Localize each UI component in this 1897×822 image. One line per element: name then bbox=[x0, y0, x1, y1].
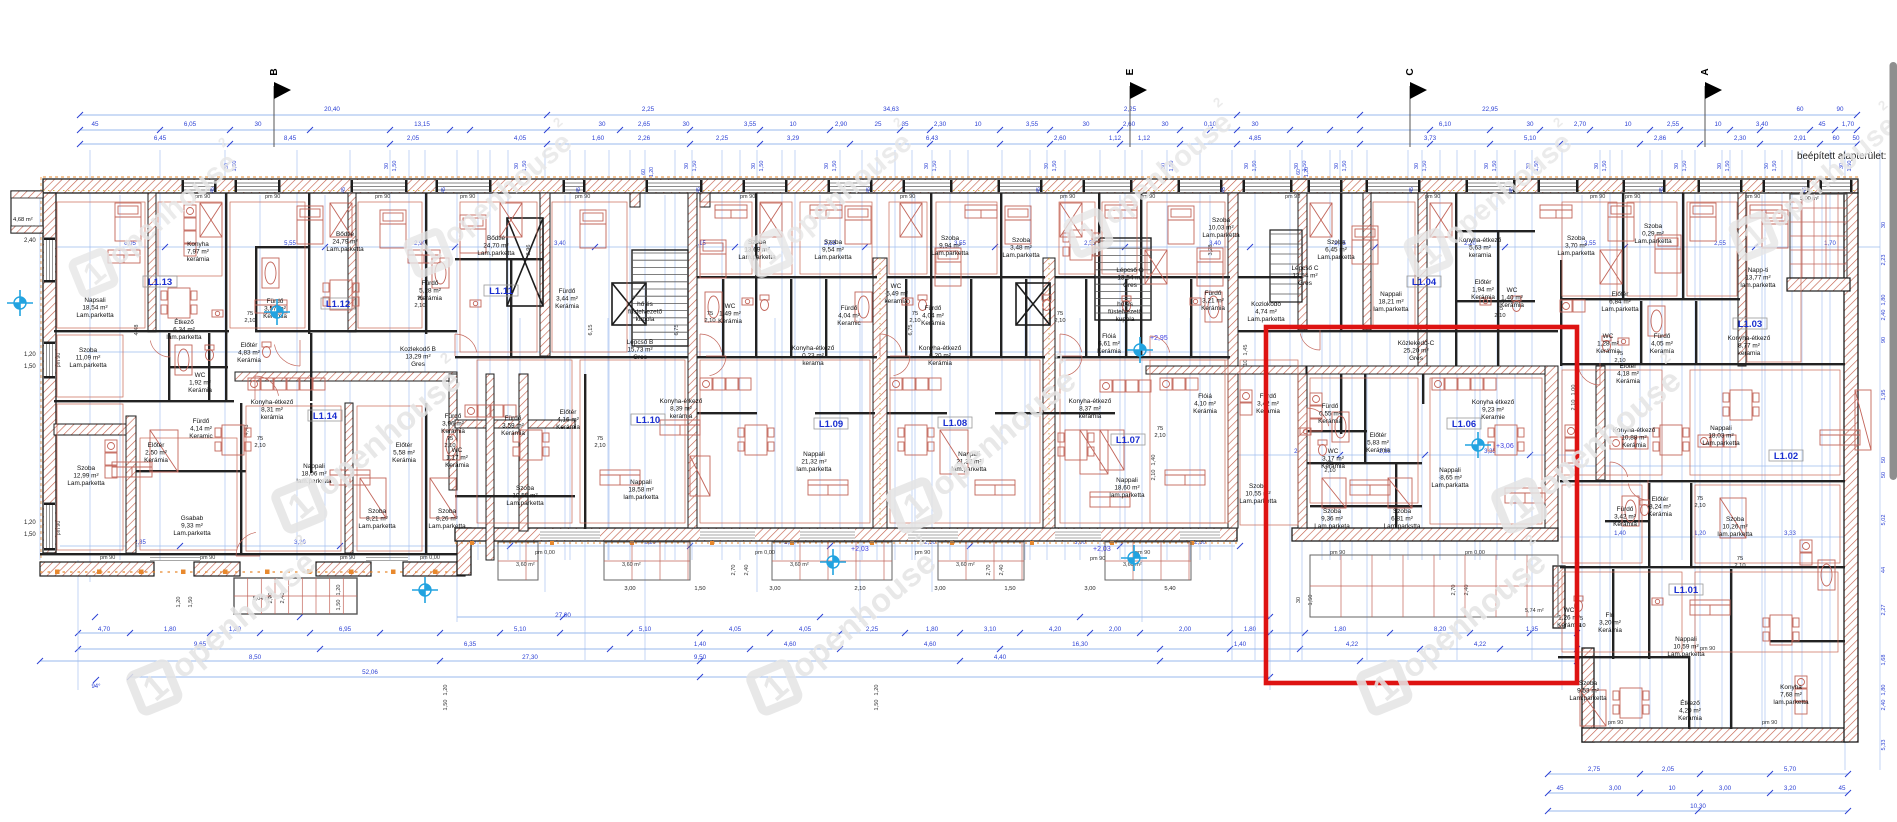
terraces bbox=[498, 542, 1558, 617]
svg-text:30: 30 bbox=[254, 121, 262, 128]
svg-text:5,40: 5,40 bbox=[1164, 586, 1175, 592]
svg-text:1,50: 1,50 bbox=[694, 586, 705, 592]
svg-text:6,10: 6,10 bbox=[1439, 121, 1452, 128]
section flags bbox=[269, 68, 1722, 147]
svg-text:45: 45 bbox=[1409, 187, 1415, 193]
svg-text:4,22: 4,22 bbox=[1474, 641, 1487, 648]
stairwell C bbox=[1270, 230, 1302, 302]
svg-text:30: 30 bbox=[1296, 597, 1302, 603]
smoke vent boxes bbox=[507, 218, 1050, 325]
svg-text:45: 45 bbox=[1556, 785, 1564, 792]
svg-text:2,10: 2,10 bbox=[1151, 470, 1157, 481]
svg-text:45: 45 bbox=[441, 187, 447, 193]
unit L1.01 bbox=[1669, 584, 1703, 595]
svg-text:3,00: 3,00 bbox=[1609, 785, 1622, 792]
svg-text:pm 90: pm 90 bbox=[1762, 720, 1777, 726]
svg-text:4,68 m²: 4,68 m² bbox=[13, 217, 33, 223]
svg-text:30: 30 bbox=[1484, 163, 1490, 169]
svg-text:3,60 m²: 3,60 m² bbox=[622, 562, 641, 568]
svg-text:3,00: 3,00 bbox=[934, 586, 945, 592]
svg-text:4,05: 4,05 bbox=[799, 626, 812, 633]
svg-text:4,60: 4,60 bbox=[924, 641, 937, 648]
svg-text:10: 10 bbox=[974, 121, 982, 128]
svg-text:2,05: 2,05 bbox=[1662, 766, 1675, 773]
svg-text:2,70: 2,70 bbox=[731, 565, 737, 576]
svg-text:2,10: 2,10 bbox=[1154, 433, 1165, 439]
svg-text:1,40: 1,40 bbox=[1234, 641, 1247, 648]
svg-text:L1.12: L1.12 bbox=[326, 299, 350, 310]
svg-text:1,50: 1,50 bbox=[392, 161, 398, 172]
furniture bbox=[105, 203, 1871, 726]
svg-text:1,20: 1,20 bbox=[649, 167, 655, 177]
svg-text:1,50: 1,50 bbox=[832, 161, 838, 172]
wall: right extension bottom bbox=[1582, 728, 1848, 742]
svg-text:5,02: 5,02 bbox=[1881, 515, 1887, 526]
svg-text:1,80: 1,80 bbox=[926, 626, 939, 633]
svg-text:30: 30 bbox=[598, 121, 606, 128]
svg-text:45: 45 bbox=[1659, 187, 1665, 193]
svg-text:L1.06: L1.06 bbox=[1452, 419, 1476, 430]
svg-text:1,60: 1,60 bbox=[592, 135, 605, 142]
svg-text:30: 30 bbox=[924, 163, 930, 169]
svg-text:L1.09: L1.09 bbox=[819, 419, 843, 430]
wall: bottom left bbox=[40, 553, 457, 555]
svg-text:2,40: 2,40 bbox=[24, 238, 36, 244]
wall: bottom middle bbox=[455, 528, 1237, 541]
svg-text:10,30: 10,30 bbox=[1690, 803, 1706, 810]
svg-text:3,40: 3,40 bbox=[1756, 121, 1769, 128]
interior walls: unit L1.06 bbox=[1298, 366, 1558, 528]
svg-text:1,50: 1,50 bbox=[1422, 161, 1428, 172]
svg-text:6,43: 6,43 bbox=[926, 135, 939, 142]
svg-text:3,00: 3,00 bbox=[1719, 785, 1732, 792]
svg-text:4,85: 4,85 bbox=[1249, 135, 1262, 142]
svg-text:1,50: 1,50 bbox=[759, 161, 765, 172]
svg-text:2,60: 2,60 bbox=[1054, 135, 1067, 142]
svg-text:60: 60 bbox=[1832, 135, 1840, 142]
svg-text:2,10: 2,10 bbox=[704, 318, 715, 324]
unit L1.11 bbox=[484, 285, 518, 296]
svg-text:5,10: 5,10 bbox=[514, 626, 527, 633]
svg-text:2,00: 2,00 bbox=[1109, 626, 1122, 633]
wall: left exterior bbox=[43, 193, 56, 553]
svg-text:pm 90: pm 90 bbox=[740, 194, 755, 200]
svg-text:30: 30 bbox=[684, 163, 690, 169]
svg-text:2,10: 2,10 bbox=[244, 318, 255, 324]
svg-text:1,70: 1,70 bbox=[1842, 121, 1855, 128]
interior walls: right extension bbox=[1558, 193, 1845, 729]
svg-text:2,27: 2,27 bbox=[1881, 605, 1887, 616]
svg-text:1,20: 1,20 bbox=[24, 352, 36, 358]
svg-text:5,10: 5,10 bbox=[1524, 135, 1537, 142]
svg-text:1,50: 1,50 bbox=[1052, 161, 1058, 172]
building outer walls bbox=[11, 167, 1858, 742]
svg-text:3,55: 3,55 bbox=[744, 121, 757, 128]
svg-text:45: 45 bbox=[1036, 187, 1042, 193]
svg-text:75: 75 bbox=[247, 311, 253, 317]
svg-text:45: 45 bbox=[341, 187, 347, 193]
interior walls: L1.04 / corridor C block bbox=[1238, 193, 1558, 366]
svg-text:75: 75 bbox=[597, 436, 603, 442]
svg-text:3,55: 3,55 bbox=[1026, 121, 1039, 128]
svg-text:30: 30 bbox=[824, 163, 830, 169]
svg-text:pm 90: pm 90 bbox=[265, 194, 280, 200]
interior walls: stair B + mid units bbox=[688, 193, 1238, 528]
svg-text:L1.13: L1.13 bbox=[148, 277, 172, 288]
svg-text:30: 30 bbox=[1881, 222, 1887, 228]
svg-text:2,65: 2,65 bbox=[638, 121, 651, 128]
svg-text:4,20: 4,20 bbox=[1049, 626, 1062, 633]
svg-text:1,68: 1,68 bbox=[1881, 655, 1887, 666]
svg-text:1,50: 1,50 bbox=[443, 700, 449, 711]
svg-text:3,40: 3,40 bbox=[554, 241, 566, 247]
svg-text:75: 75 bbox=[1737, 556, 1743, 562]
stairwell mid (Lepcso G) bbox=[1095, 238, 1306, 374]
svg-text:1,50: 1,50 bbox=[1772, 161, 1778, 172]
svg-text:1,80: 1,80 bbox=[1881, 295, 1887, 306]
svg-text:pm 90: pm 90 bbox=[200, 555, 215, 561]
svg-text:30: 30 bbox=[384, 163, 390, 169]
svg-text:pm 90: pm 90 bbox=[340, 555, 355, 561]
svg-text:75: 75 bbox=[1617, 351, 1623, 357]
svg-text:Konyha7,97 m²kerámia: Konyha7,97 m²kerámia bbox=[187, 241, 210, 263]
level marks bbox=[100, 194, 1777, 726]
unit L1.07 bbox=[1111, 434, 1145, 445]
svg-text:3,00: 3,00 bbox=[624, 586, 635, 592]
svg-text:pm 90: pm 90 bbox=[1060, 194, 1075, 200]
svg-text:25: 25 bbox=[874, 121, 882, 128]
wall: L1.06 bottom bbox=[1292, 528, 1558, 541]
svg-text:2,75: 2,75 bbox=[1588, 766, 1601, 773]
svg-text:2,10: 2,10 bbox=[594, 443, 605, 449]
svg-text:pm 90: pm 90 bbox=[1745, 194, 1760, 200]
svg-text:pm 0,00: pm 0,00 bbox=[1465, 550, 1485, 556]
svg-text:6,45: 6,45 bbox=[154, 135, 167, 142]
windows: top wall bbox=[184, 180, 214, 192]
svg-text:L1.07: L1.07 bbox=[1116, 435, 1140, 446]
unit L1.02 bbox=[1769, 450, 1803, 461]
svg-text:75: 75 bbox=[1327, 461, 1333, 467]
svg-text:1,20: 1,20 bbox=[336, 585, 342, 596]
svg-text:30: 30 bbox=[1526, 121, 1534, 128]
svg-text:1,40: 1,40 bbox=[1614, 531, 1626, 537]
svg-text:4,22: 4,22 bbox=[1346, 641, 1359, 648]
svg-text:L1.14: L1.14 bbox=[313, 411, 338, 422]
svg-text:8,50: 8,50 bbox=[249, 654, 262, 661]
svg-text:60: 60 bbox=[1296, 169, 1302, 175]
svg-text:pm 90: pm 90 bbox=[1330, 550, 1345, 556]
svg-text:2,10: 2,10 bbox=[1494, 313, 1505, 319]
svg-text:pm 90: pm 90 bbox=[1608, 720, 1623, 726]
svg-text:3,60 m²: 3,60 m² bbox=[516, 562, 535, 568]
svg-text:pm 90: pm 90 bbox=[900, 194, 915, 200]
svg-text:94°: 94° bbox=[91, 684, 101, 690]
wall: right exterior bbox=[1844, 193, 1858, 742]
svg-text:30: 30 bbox=[1294, 163, 1300, 169]
svg-text:30: 30 bbox=[1244, 163, 1250, 169]
svg-text:E: E bbox=[1125, 68, 1136, 75]
svg-text:pm 90: pm 90 bbox=[1590, 194, 1605, 200]
svg-text:pm 90: pm 90 bbox=[1700, 646, 1715, 652]
top-right balcony bbox=[1787, 194, 1850, 291]
svg-text:1,40: 1,40 bbox=[694, 641, 707, 648]
svg-text:30: 30 bbox=[751, 163, 757, 169]
svg-text:2,10: 2,10 bbox=[1694, 503, 1705, 509]
svg-text:2,91: 2,91 bbox=[1794, 135, 1807, 142]
svg-text:2,30: 2,30 bbox=[1734, 135, 1747, 142]
unit labels bbox=[143, 276, 1803, 596]
unit L1.09 bbox=[814, 418, 848, 429]
svg-text:1,50: 1,50 bbox=[1308, 595, 1314, 606]
svg-text:1,20: 1,20 bbox=[24, 520, 36, 526]
red highlight rectangle bbox=[1266, 327, 1577, 683]
svg-text:6,15: 6,15 bbox=[588, 325, 594, 336]
svg-text:3,00: 3,00 bbox=[769, 586, 780, 592]
survey benchmarks bbox=[7, 290, 1514, 603]
svg-text:30: 30 bbox=[1161, 121, 1169, 128]
svg-text:L1.11: L1.11 bbox=[489, 286, 513, 297]
svg-text:30: 30 bbox=[1334, 163, 1340, 169]
svg-text:2,25: 2,25 bbox=[716, 135, 729, 142]
svg-text:1,50: 1,50 bbox=[874, 700, 880, 711]
svg-text:2,40: 2,40 bbox=[1881, 700, 1887, 711]
svg-text:1,50: 1,50 bbox=[188, 597, 194, 608]
watermarks bbox=[61, 134, 250, 303]
svg-text:10: 10 bbox=[1714, 121, 1722, 128]
svg-text:45: 45 bbox=[91, 121, 99, 128]
unit L1.03 bbox=[1733, 318, 1767, 329]
svg-text:30: 30 bbox=[1674, 163, 1680, 169]
svg-text:34,63: 34,63 bbox=[883, 106, 899, 113]
svg-text:1,80: 1,80 bbox=[164, 626, 177, 633]
svg-text:3,60 m²: 3,60 m² bbox=[956, 562, 975, 568]
svg-text:75: 75 bbox=[447, 436, 453, 442]
svg-text:2,30: 2,30 bbox=[934, 121, 947, 128]
room labels bbox=[67, 217, 1809, 722]
svg-text:30: 30 bbox=[1082, 121, 1090, 128]
svg-text:2,70: 2,70 bbox=[1574, 121, 1587, 128]
svg-text:60: 60 bbox=[641, 169, 647, 175]
flag E bbox=[1129, 86, 1131, 147]
svg-text:3,20: 3,20 bbox=[1784, 785, 1797, 792]
svg-text:2,10: 2,10 bbox=[1324, 468, 1335, 474]
svg-text:75: 75 bbox=[1157, 426, 1163, 432]
svg-text:16,30: 16,30 bbox=[1072, 641, 1088, 648]
svg-text:3,00: 3,00 bbox=[1084, 586, 1095, 592]
svg-text:2,10: 2,10 bbox=[414, 303, 425, 309]
svg-text:30: 30 bbox=[1251, 121, 1259, 128]
svg-text:3,28: 3,28 bbox=[1208, 245, 1214, 256]
svg-text:1,50: 1,50 bbox=[1342, 161, 1348, 172]
svg-text:2,55: 2,55 bbox=[1714, 241, 1726, 247]
svg-text:1,12: 1,12 bbox=[1138, 135, 1151, 142]
svg-text:L1.10: L1.10 bbox=[636, 415, 660, 426]
svg-text:45: 45 bbox=[576, 187, 582, 193]
svg-text:pm 0,00: pm 0,00 bbox=[755, 550, 775, 556]
svg-text:2,10: 2,10 bbox=[444, 443, 455, 449]
svg-text:2,10: 2,10 bbox=[1054, 318, 1065, 324]
unit L1.06 bbox=[1447, 418, 1481, 429]
svg-text:2,26: 2,26 bbox=[638, 135, 651, 142]
svg-text:8,45: 8,45 bbox=[284, 135, 297, 142]
svg-text:pm 90: pm 90 bbox=[575, 194, 590, 200]
svg-text:45: 45 bbox=[1818, 121, 1826, 128]
svg-text:1,95: 1,95 bbox=[1881, 390, 1887, 401]
svg-text:1,20: 1,20 bbox=[874, 685, 880, 696]
svg-text:75: 75 bbox=[707, 311, 713, 317]
svg-text:1,50: 1,50 bbox=[1602, 161, 1608, 172]
svg-text:L1.01: L1.01 bbox=[1674, 585, 1699, 596]
unit L1.04 bbox=[1407, 276, 1441, 287]
svg-text:L1.08: L1.08 bbox=[943, 418, 967, 429]
svg-text:3,10: 3,10 bbox=[984, 626, 997, 633]
black dim rows bbox=[244, 296, 1745, 629]
svg-text:45: 45 bbox=[1838, 785, 1846, 792]
svg-text:C: C bbox=[1405, 68, 1416, 75]
svg-text:90: 90 bbox=[1836, 106, 1844, 113]
svg-text:1,45: 1,45 bbox=[1243, 345, 1249, 356]
svg-text:75: 75 bbox=[1057, 311, 1063, 317]
svg-text:3,29: 3,29 bbox=[787, 135, 800, 142]
svg-text:4,05: 4,05 bbox=[514, 135, 527, 142]
svg-text:2,10: 2,10 bbox=[1734, 563, 1745, 569]
svg-text:45: 45 bbox=[1221, 187, 1227, 193]
svg-text:1,50: 1,50 bbox=[24, 364, 36, 370]
svg-text:pm 0,00: pm 0,00 bbox=[420, 555, 440, 561]
svg-text:pm 90: pm 90 bbox=[375, 194, 390, 200]
svg-text:1,50: 1,50 bbox=[1682, 161, 1688, 172]
svg-text:2,10: 2,10 bbox=[909, 318, 920, 324]
svg-text:10: 10 bbox=[1668, 785, 1676, 792]
unit L1.13 bbox=[143, 276, 177, 287]
svg-text:6,35: 6,35 bbox=[464, 641, 477, 648]
svg-text:6,75: 6,75 bbox=[908, 325, 914, 336]
svg-text:2,00: 2,00 bbox=[1179, 626, 1192, 633]
svg-text:+2,95: +2,95 bbox=[1150, 335, 1168, 342]
svg-text:1,20: 1,20 bbox=[176, 597, 182, 608]
svg-text:pm 90: pm 90 bbox=[1425, 194, 1440, 200]
svg-text:44: 44 bbox=[1881, 567, 1887, 573]
wall: top exterior bbox=[43, 179, 1858, 193]
svg-text:4,40: 4,40 bbox=[994, 654, 1007, 661]
svg-text:45: 45 bbox=[696, 187, 702, 193]
svg-text:2,10: 2,10 bbox=[254, 443, 265, 449]
svg-text:2,90: 2,90 bbox=[835, 121, 848, 128]
flag C bbox=[1409, 86, 1411, 147]
svg-text:A: A bbox=[1700, 68, 1711, 75]
svg-text:+3,06: +3,06 bbox=[1496, 443, 1514, 450]
svg-text:1,50: 1,50 bbox=[24, 532, 36, 538]
svg-text:2,25: 2,25 bbox=[642, 106, 655, 113]
svg-text:27,30: 27,30 bbox=[522, 654, 538, 661]
svg-text:5,74 m²: 5,74 m² bbox=[1525, 608, 1544, 614]
svg-text:+2,03: +2,03 bbox=[1093, 546, 1111, 553]
svg-text:50: 50 bbox=[1881, 457, 1887, 463]
svg-text:pm 90: pm 90 bbox=[1625, 194, 1640, 200]
svg-text:10: 10 bbox=[1624, 121, 1632, 128]
svg-text:75: 75 bbox=[912, 311, 918, 317]
svg-text:75: 75 bbox=[1697, 496, 1703, 502]
svg-text:75: 75 bbox=[1497, 306, 1503, 312]
svg-text:1,50: 1,50 bbox=[932, 161, 938, 172]
svg-text:22,95: 22,95 bbox=[1482, 106, 1498, 113]
svg-text:20,40: 20,40 bbox=[324, 106, 340, 113]
svg-text:1,12: 1,12 bbox=[1109, 135, 1122, 142]
svg-text:3,73: 3,73 bbox=[1424, 135, 1437, 142]
svg-text:2,60: 2,60 bbox=[1123, 121, 1136, 128]
svg-text:2,23: 2,23 bbox=[1881, 255, 1887, 266]
svg-text:1,80: 1,80 bbox=[1881, 685, 1887, 696]
balcony top-left bbox=[11, 191, 43, 233]
svg-text:2,70: 2,70 bbox=[986, 565, 992, 576]
svg-text:3,33: 3,33 bbox=[1784, 531, 1796, 537]
scrollbar bbox=[1890, 62, 1897, 480]
svg-text:L1.02: L1.02 bbox=[1774, 451, 1798, 462]
unit L1.12 bbox=[321, 298, 355, 309]
svg-text:27,00: 27,00 bbox=[555, 612, 571, 619]
svg-text:1,20: 1,20 bbox=[1304, 167, 1310, 177]
svg-text:5,70: 5,70 bbox=[1784, 766, 1797, 773]
unit L1.10 bbox=[631, 414, 665, 425]
wall: right extension left bbox=[1553, 566, 1565, 628]
svg-text:50: 50 bbox=[1881, 472, 1887, 478]
flag A bbox=[1704, 86, 1706, 147]
svg-text:2,86: 2,86 bbox=[1654, 135, 1667, 142]
svg-text:75: 75 bbox=[417, 296, 423, 302]
svg-text:1,50: 1,50 bbox=[692, 161, 698, 172]
svg-text:1,20: 1,20 bbox=[1694, 531, 1706, 537]
svg-text:3,60 m²: 3,60 m² bbox=[790, 562, 809, 568]
svg-text:2,55: 2,55 bbox=[1667, 121, 1680, 128]
unit L1.08 bbox=[938, 417, 972, 428]
svg-text:13,15: 13,15 bbox=[414, 121, 430, 128]
svg-text:6,05: 6,05 bbox=[184, 121, 197, 128]
svg-text:30: 30 bbox=[1594, 163, 1600, 169]
svg-text:5,33: 5,33 bbox=[1881, 740, 1887, 751]
svg-text:6,95: 6,95 bbox=[339, 626, 352, 633]
room finish outlines bbox=[57, 202, 1840, 652]
svg-text:pm 90: pm 90 bbox=[100, 555, 115, 561]
exterior stairs bbox=[234, 578, 357, 614]
svg-text:pm 90: pm 90 bbox=[1090, 556, 1105, 562]
svg-text:L1.04: L1.04 bbox=[1412, 277, 1437, 288]
svg-text:L1.03: L1.03 bbox=[1738, 319, 1762, 330]
interior walls: left block bbox=[54, 193, 457, 553]
svg-text:2,05: 2,05 bbox=[407, 135, 420, 142]
svg-text:9,50: 9,50 bbox=[694, 654, 707, 661]
svg-text:4,60: 4,60 bbox=[784, 641, 797, 648]
svg-text:30: 30 bbox=[682, 121, 690, 128]
svg-text:+2,03: +2,03 bbox=[851, 546, 869, 553]
svg-text:52,06: 52,06 bbox=[362, 669, 378, 676]
svg-text:30: 30 bbox=[1414, 163, 1420, 169]
flag B bbox=[273, 86, 275, 147]
svg-text:2,40: 2,40 bbox=[999, 565, 1005, 576]
svg-text:10: 10 bbox=[789, 121, 797, 128]
svg-text:60: 60 bbox=[1796, 106, 1804, 113]
svg-text:B: B bbox=[269, 68, 280, 75]
interior walls: L1.11 block bbox=[455, 193, 690, 560]
unit L1.14 bbox=[308, 410, 342, 421]
svg-text:pm 0,00: pm 0,00 bbox=[535, 550, 555, 556]
svg-text:90: 90 bbox=[1881, 337, 1887, 343]
svg-text:4,70: 4,70 bbox=[98, 626, 111, 633]
svg-text:2,40: 2,40 bbox=[1881, 310, 1887, 321]
svg-text:6,75: 6,75 bbox=[674, 325, 680, 336]
svg-text:pm 90: pm 90 bbox=[1285, 194, 1300, 200]
svg-text:1,80: 1,80 bbox=[1334, 626, 1347, 633]
svg-text:2,40: 2,40 bbox=[744, 565, 750, 576]
